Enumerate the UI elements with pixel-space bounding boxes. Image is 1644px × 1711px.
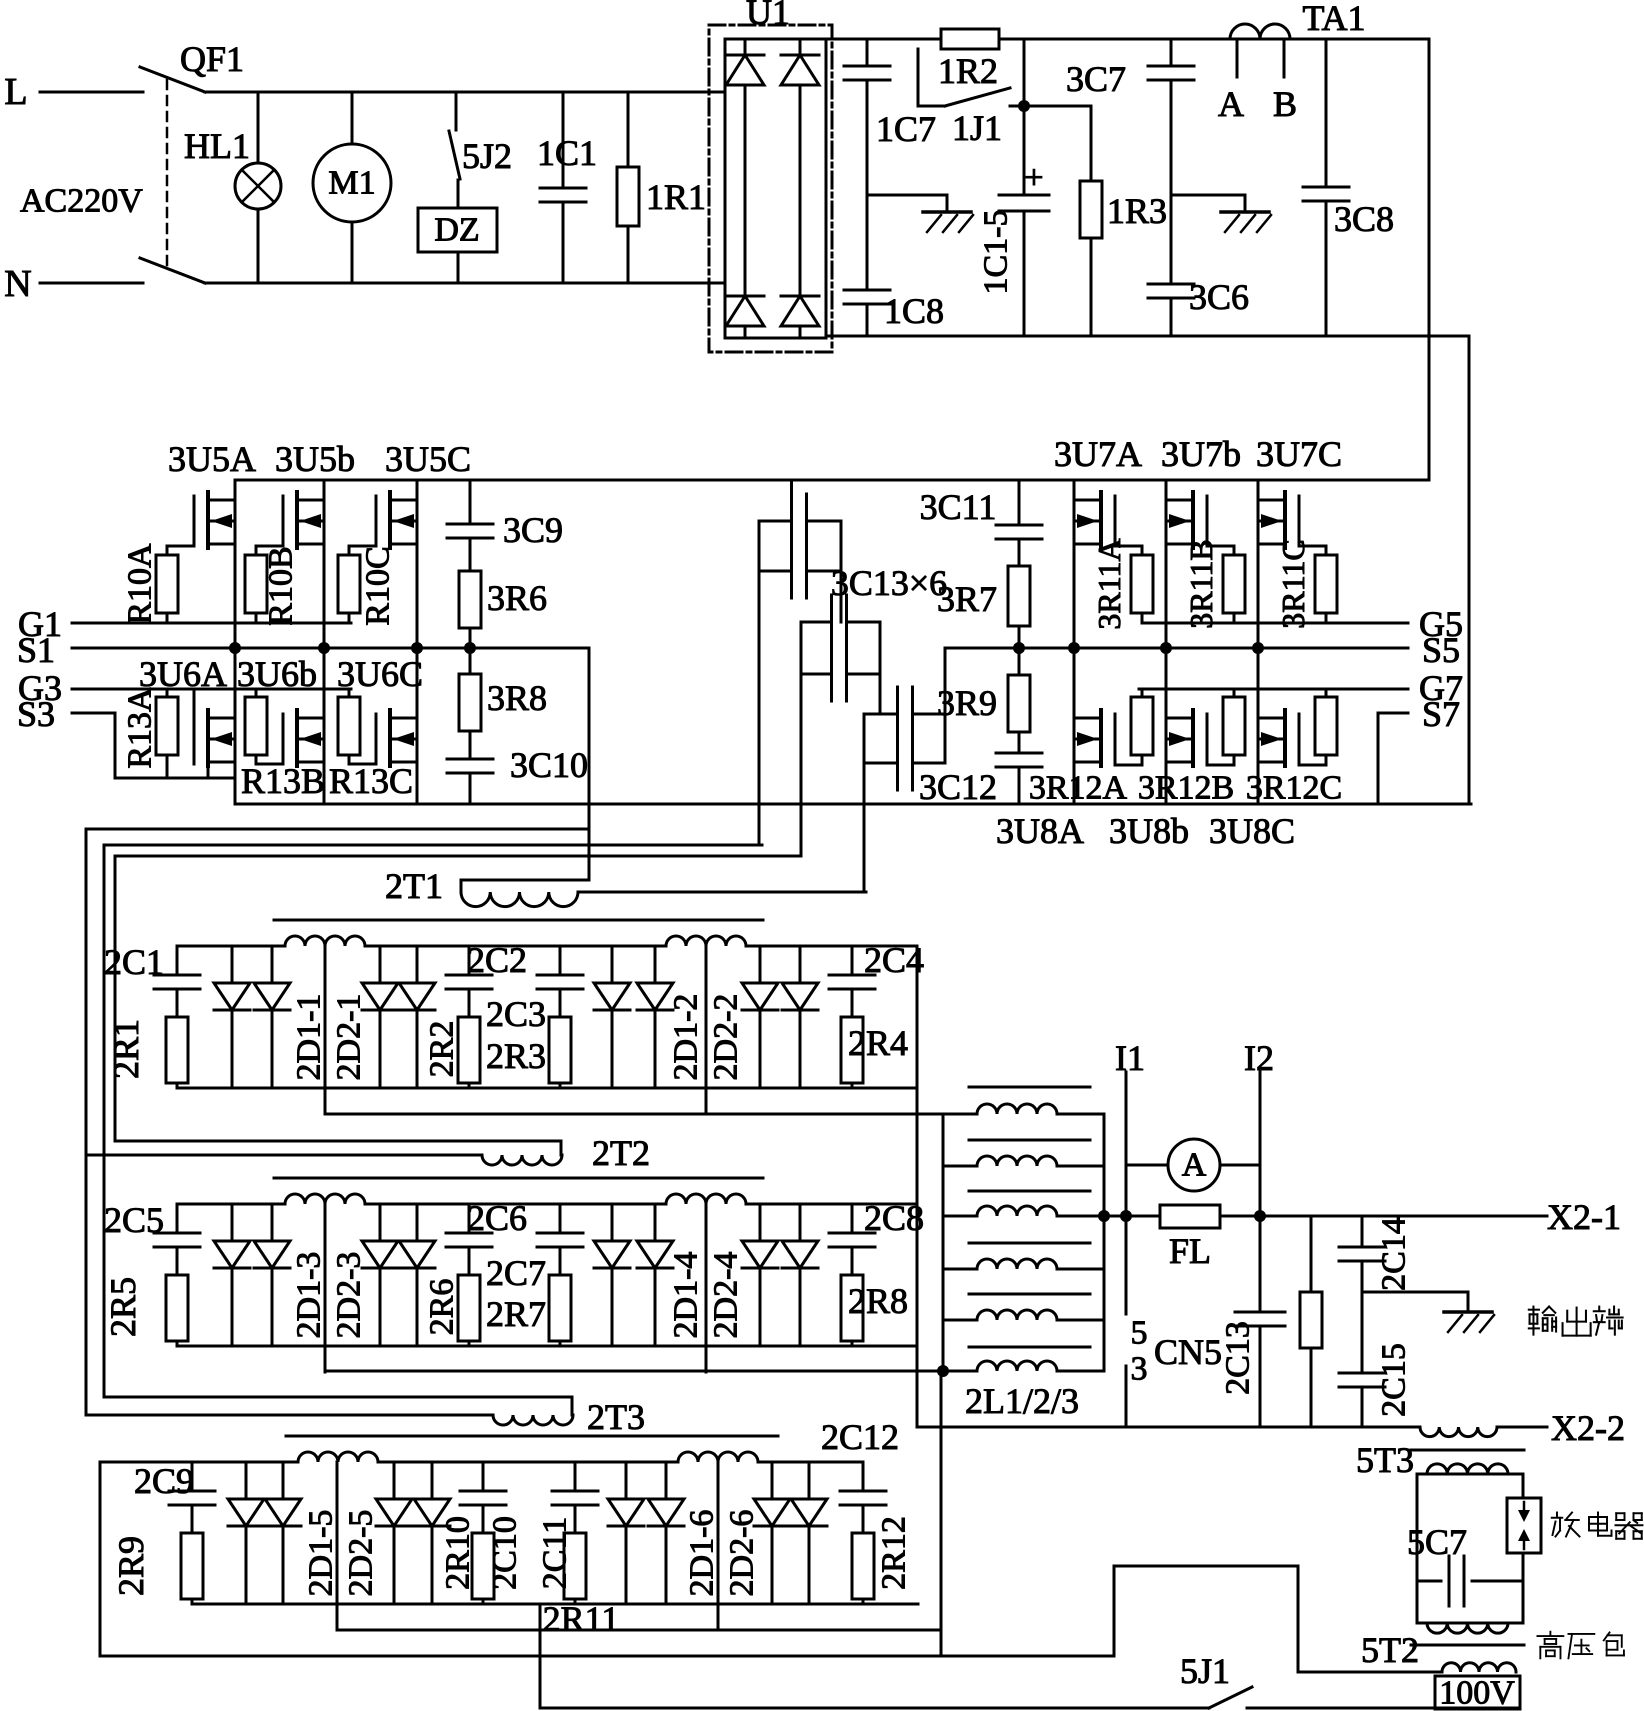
svg-text:FL: FL (1169, 1231, 1211, 1271)
svg-text:2R2: 2R2 (424, 1021, 461, 1078)
svg-text:2D2-1: 2D2-1 (331, 994, 368, 1081)
svg-text:2T2: 2T2 (592, 1133, 650, 1173)
svg-text:R13C: R13C (329, 761, 413, 801)
svg-text:2D2-2: 2D2-2 (708, 994, 745, 1081)
svg-text:3U5A: 3U5A (168, 439, 256, 479)
svg-text:2R9: 2R9 (111, 1536, 151, 1596)
svg-text:3U5b: 3U5b (275, 439, 355, 479)
svg-text:S5: S5 (1422, 630, 1460, 670)
svg-text:2R12: 2R12 (876, 1516, 913, 1590)
svg-text:2R3: 2R3 (486, 1036, 546, 1076)
svg-text:5J2: 5J2 (462, 136, 512, 176)
svg-text:3U8A: 3U8A (996, 811, 1084, 851)
svg-text:1C1-5: 1C1-5 (978, 210, 1015, 295)
svg-text:2C7: 2C7 (486, 1253, 546, 1293)
svg-text:3C12: 3C12 (919, 767, 997, 807)
svg-text:2R8: 2R8 (848, 1281, 908, 1321)
svg-text:R13B: R13B (241, 761, 325, 801)
svg-text:3U8b: 3U8b (1109, 811, 1189, 851)
svg-text:R10A: R10A (122, 543, 159, 625)
svg-text:3R12A: 3R12A (1029, 770, 1128, 807)
svg-text:R13A: R13A (122, 687, 159, 769)
svg-text:2C15: 2C15 (1376, 1343, 1413, 1417)
svg-text:2D2-5: 2D2-5 (343, 1510, 380, 1597)
svg-text:1R2: 1R2 (938, 51, 998, 91)
svg-text:TA1: TA1 (1302, 0, 1365, 38)
svg-text:2C9: 2C9 (134, 1461, 194, 1501)
svg-text:3C8: 3C8 (1334, 199, 1394, 239)
svg-text:3R12C: 3R12C (1246, 770, 1342, 807)
svg-text:2T1: 2T1 (385, 866, 443, 906)
svg-text:3R12B: 3R12B (1138, 770, 1234, 807)
svg-text:A: A (1218, 84, 1244, 124)
svg-text:5T3: 5T3 (1356, 1440, 1414, 1480)
svg-text:2C14: 2C14 (1376, 1217, 1413, 1291)
svg-text:3U7C: 3U7C (1256, 434, 1342, 474)
svg-text:2C12: 2C12 (821, 1417, 899, 1457)
svg-text:2L1/2/3: 2L1/2/3 (965, 1381, 1079, 1421)
svg-text:2R6: 2R6 (424, 1279, 461, 1336)
svg-text:3U5C: 3U5C (385, 439, 471, 479)
svg-text:B: B (1273, 84, 1297, 124)
svg-text:1C8: 1C8 (884, 291, 944, 331)
svg-text:2R10: 2R10 (440, 1516, 477, 1590)
svg-text:3R11A: 3R11A (1091, 538, 1127, 629)
svg-text:2D1-6: 2D1-6 (684, 1510, 721, 1597)
svg-text:X2-1: X2-1 (1547, 1197, 1621, 1237)
svg-text:2R1: 2R1 (106, 1019, 146, 1079)
svg-text:DZ: DZ (434, 212, 479, 249)
svg-text:2D1-5: 2D1-5 (303, 1510, 340, 1597)
svg-text:2R4: 2R4 (848, 1023, 908, 1063)
svg-text:QF1: QF1 (180, 39, 244, 79)
svg-text:2D1-3: 2D1-3 (291, 1252, 328, 1339)
svg-text:3R6: 3R6 (487, 578, 547, 618)
svg-text:2C4: 2C4 (864, 940, 924, 980)
svg-text:2C2: 2C2 (467, 940, 527, 980)
svg-text:1J1: 1J1 (952, 108, 1002, 148)
svg-text:I1: I1 (1115, 1038, 1145, 1078)
svg-text:5T2: 5T2 (1361, 1630, 1419, 1670)
svg-text:3C11: 3C11 (920, 487, 997, 527)
svg-text:2R7: 2R7 (486, 1294, 546, 1334)
svg-text:2C8: 2C8 (864, 1198, 924, 1238)
svg-text:X2-2: X2-2 (1551, 1408, 1625, 1448)
svg-text:1C7: 1C7 (876, 109, 936, 149)
svg-text:R10B: R10B (263, 546, 300, 625)
svg-text:5: 5 (1131, 1315, 1148, 1352)
svg-text:2R5: 2R5 (103, 1277, 143, 1337)
svg-text:N: N (4, 263, 31, 305)
svg-text:1R1: 1R1 (646, 177, 706, 217)
svg-text:2D1-2: 2D1-2 (668, 994, 705, 1081)
svg-text:2D1-4: 2D1-4 (668, 1252, 705, 1339)
svg-text:+: + (1024, 160, 1043, 197)
svg-text:L: L (4, 71, 27, 113)
svg-text:3C13×6: 3C13×6 (831, 563, 947, 603)
svg-text:3C6: 3C6 (1189, 277, 1249, 317)
svg-text:HL1: HL1 (184, 126, 250, 166)
svg-text:1R3: 1R3 (1107, 191, 1167, 231)
svg-text:2D2-3: 2D2-3 (331, 1252, 368, 1339)
svg-text:3R11C: 3R11C (1275, 539, 1311, 629)
svg-text:M1: M1 (328, 165, 375, 202)
svg-text:2D1-1: 2D1-1 (291, 994, 328, 1081)
svg-text:R10C: R10C (360, 546, 397, 625)
svg-text:2C10: 2C10 (487, 1516, 524, 1590)
svg-text:3C9: 3C9 (503, 510, 563, 550)
svg-text:3U8C: 3U8C (1209, 811, 1295, 851)
svg-text:2R11: 2R11 (543, 1599, 620, 1639)
svg-text:3C7: 3C7 (1066, 59, 1126, 99)
svg-text:5J1: 5J1 (1180, 1651, 1230, 1691)
svg-text:2D2-6: 2D2-6 (724, 1510, 761, 1597)
svg-text:3U7b: 3U7b (1161, 434, 1241, 474)
svg-text:5C7: 5C7 (1407, 1522, 1467, 1562)
svg-text:3: 3 (1131, 1351, 1148, 1388)
svg-text:AC220V: AC220V (20, 183, 143, 220)
svg-text:3C10: 3C10 (510, 745, 588, 785)
svg-text:2D2-4: 2D2-4 (708, 1252, 745, 1339)
svg-text:CN5: CN5 (1154, 1332, 1222, 1372)
svg-text:2C13: 2C13 (1220, 1321, 1257, 1395)
svg-text:2C5: 2C5 (104, 1200, 164, 1240)
svg-text:2C3: 2C3 (486, 994, 546, 1034)
svg-text:2C11: 2C11 (537, 1517, 574, 1589)
svg-text:1C1: 1C1 (537, 133, 597, 173)
svg-text:S3: S3 (17, 694, 55, 734)
svg-text:100V: 100V (1439, 1675, 1515, 1711)
svg-text:S1: S1 (17, 630, 55, 670)
svg-text:2C6: 2C6 (467, 1198, 527, 1238)
svg-text:3R8: 3R8 (487, 678, 547, 718)
svg-text:S7: S7 (1422, 694, 1460, 734)
svg-text:A: A (1182, 1147, 1207, 1184)
svg-text:3R11B: 3R11B (1183, 539, 1219, 629)
svg-text:3U7A: 3U7A (1054, 434, 1142, 474)
svg-text:U1: U1 (746, 0, 790, 32)
svg-text:2T3: 2T3 (587, 1397, 645, 1437)
svg-text:2C1: 2C1 (104, 942, 164, 982)
